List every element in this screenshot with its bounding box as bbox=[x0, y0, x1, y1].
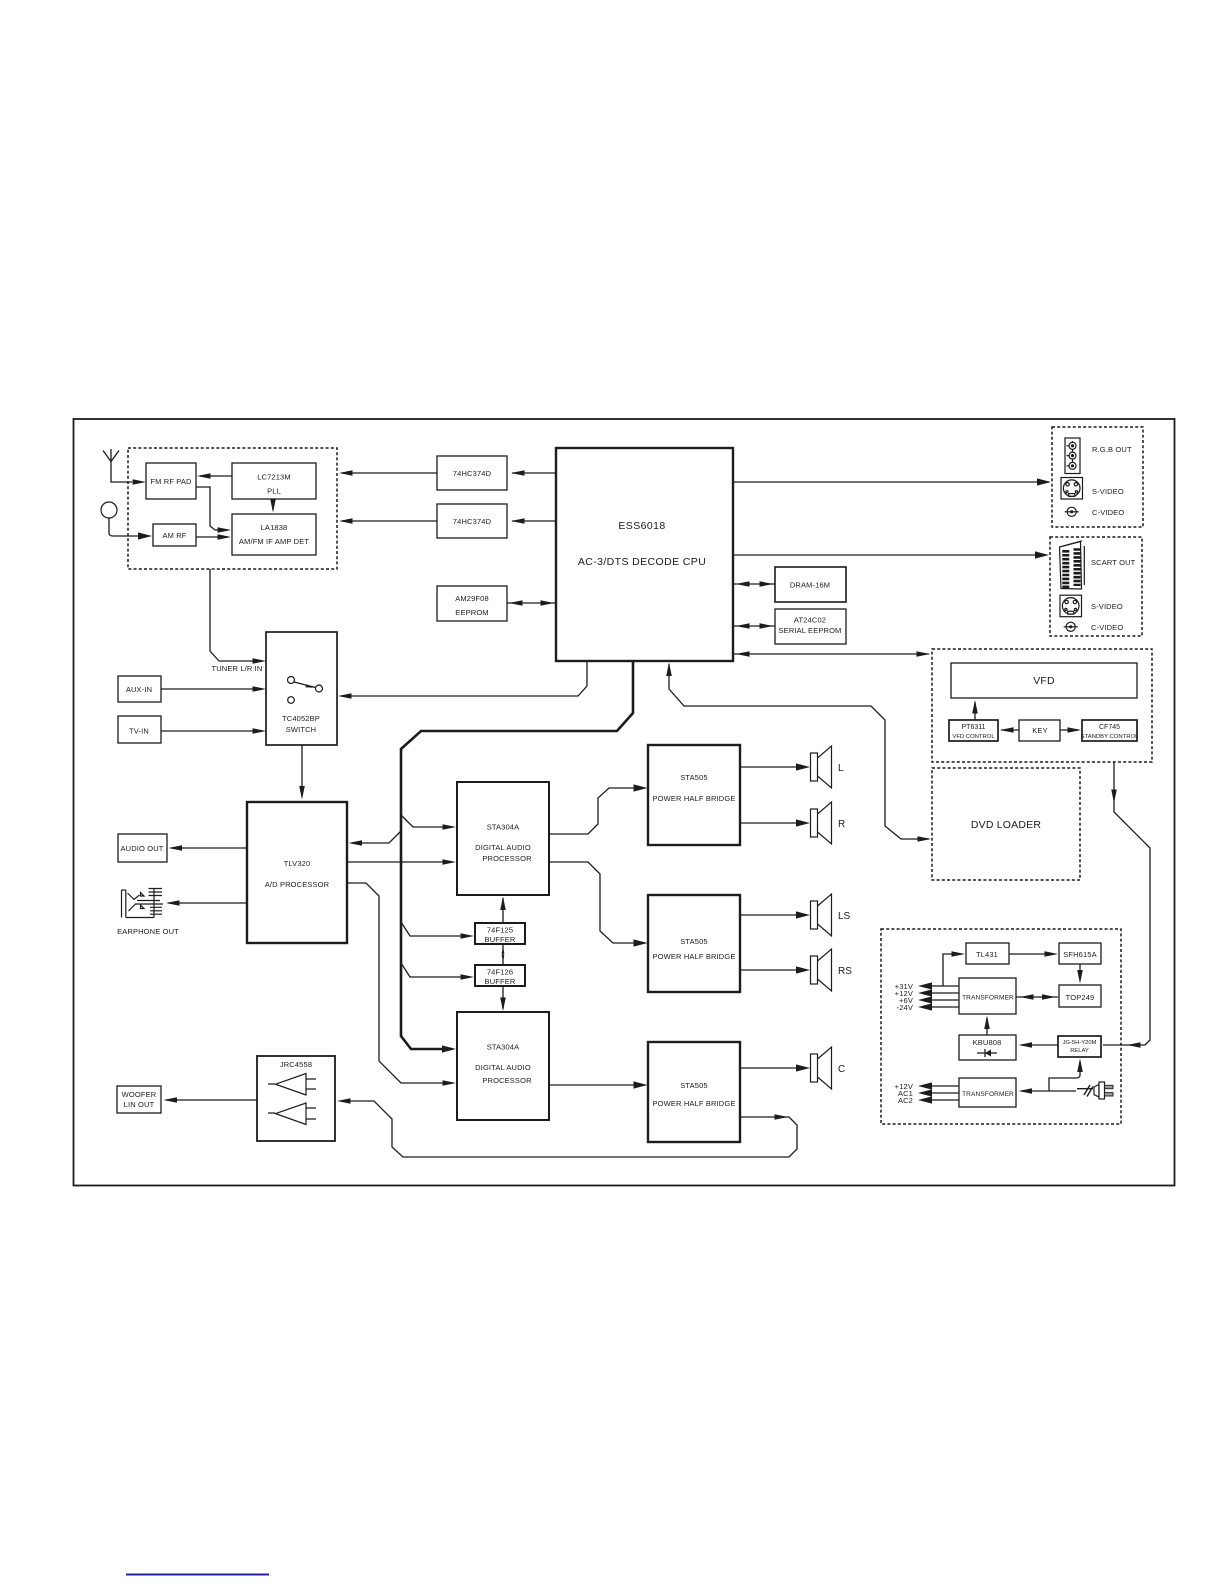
svg-text:TL431: TL431 bbox=[976, 950, 998, 959]
svg-text:VFD CONTROL: VFD CONTROL bbox=[952, 734, 995, 740]
svg-text:RS: RS bbox=[838, 966, 852, 977]
svg-text:KEY: KEY bbox=[1032, 726, 1047, 735]
svg-text:ESS6018: ESS6018 bbox=[618, 520, 665, 532]
svg-text:JRC4558: JRC4558 bbox=[280, 1060, 312, 1069]
svg-text:C-VIDEO: C-VIDEO bbox=[1092, 508, 1124, 517]
svg-text:LS: LS bbox=[838, 911, 851, 922]
svg-text:DIGITAL AUDIO: DIGITAL AUDIO bbox=[475, 1063, 531, 1072]
svg-text:TUNER L/R IN: TUNER L/R IN bbox=[212, 664, 263, 673]
svg-text:AC2: AC2 bbox=[898, 1096, 913, 1105]
svg-text:AUDIO OUT: AUDIO OUT bbox=[120, 844, 163, 853]
svg-text:R.G.B OUT: R.G.B OUT bbox=[1092, 445, 1132, 454]
svg-text:DRAM-16M: DRAM-16M bbox=[790, 581, 830, 590]
svg-text:BUFFER: BUFFER bbox=[485, 935, 516, 944]
svg-text:-24V: -24V bbox=[897, 1003, 913, 1012]
svg-text:SFH615A: SFH615A bbox=[1063, 950, 1097, 959]
svg-text:POWER HALF BRIDGE: POWER HALF BRIDGE bbox=[653, 794, 736, 803]
svg-text:KBU808: KBU808 bbox=[973, 1038, 1002, 1047]
svg-text:A/D PROCESSOR: A/D PROCESSOR bbox=[265, 880, 330, 889]
svg-text:SERIAL EEPROM: SERIAL EEPROM bbox=[779, 626, 842, 635]
svg-text:TOP249: TOP249 bbox=[1066, 993, 1095, 1002]
svg-text:FM RF PAD: FM RF PAD bbox=[150, 477, 192, 486]
svg-text:TRANSFORMER: TRANSFORMER bbox=[962, 1091, 1014, 1098]
svg-text:EARPHONE OUT: EARPHONE OUT bbox=[117, 927, 179, 936]
svg-text:AT24C02: AT24C02 bbox=[794, 616, 826, 625]
svg-text:LC7213M: LC7213M bbox=[257, 473, 291, 482]
svg-text:AM29F08: AM29F08 bbox=[455, 594, 489, 603]
svg-text:STA304A: STA304A bbox=[487, 1043, 520, 1052]
svg-text:WOOFER: WOOFER bbox=[122, 1090, 157, 1099]
svg-text:L: L bbox=[838, 763, 844, 774]
svg-text:TV-IN: TV-IN bbox=[129, 727, 149, 736]
svg-text:SCART OUT: SCART OUT bbox=[1091, 558, 1136, 567]
svg-text:PROCESSOR: PROCESSOR bbox=[482, 854, 532, 863]
svg-text:JG-5H-Y20M: JG-5H-Y20M bbox=[1063, 1040, 1097, 1046]
svg-text:PLL: PLL bbox=[267, 487, 281, 496]
svg-text:74F125: 74F125 bbox=[487, 926, 513, 935]
svg-text:SWITCH: SWITCH bbox=[286, 725, 316, 734]
svg-text:S-VIDEO: S-VIDEO bbox=[1092, 487, 1124, 496]
svg-text:CF745: CF745 bbox=[1099, 724, 1120, 731]
svg-text:C-VIDEO: C-VIDEO bbox=[1091, 623, 1123, 632]
svg-text:TLV320: TLV320 bbox=[284, 859, 311, 868]
svg-text:AUX-IN: AUX-IN bbox=[126, 685, 152, 694]
svg-text:AM RF: AM RF bbox=[162, 531, 186, 540]
svg-text:PROCESSOR: PROCESSOR bbox=[482, 1076, 532, 1085]
svg-text:BUFFER: BUFFER bbox=[485, 977, 516, 986]
svg-text:LA1838: LA1838 bbox=[261, 523, 288, 532]
svg-text:TRANSFORMER: TRANSFORMER bbox=[962, 995, 1014, 1002]
svg-text:LIN OUT: LIN OUT bbox=[124, 1100, 155, 1109]
svg-text:TC4052BP: TC4052BP bbox=[282, 714, 320, 723]
svg-text:DIGITAL AUDIO: DIGITAL AUDIO bbox=[475, 843, 531, 852]
svg-text:STANDBY CONTROL: STANDBY CONTROL bbox=[1081, 734, 1139, 740]
svg-text:C: C bbox=[838, 1064, 845, 1075]
svg-text:R: R bbox=[838, 819, 845, 830]
svg-text:74HC374D: 74HC374D bbox=[453, 517, 492, 526]
svg-text:RELAY: RELAY bbox=[1070, 1048, 1089, 1054]
svg-text:STA304A: STA304A bbox=[487, 823, 520, 832]
svg-text:74F126: 74F126 bbox=[487, 968, 513, 977]
svg-text:POWER HALF BRIDGE: POWER HALF BRIDGE bbox=[653, 1099, 736, 1108]
svg-text:VFD: VFD bbox=[1033, 675, 1055, 687]
svg-text:STA505: STA505 bbox=[680, 937, 707, 946]
svg-text:POWER HALF BRIDGE: POWER HALF BRIDGE bbox=[653, 952, 736, 961]
svg-text:PT6311: PT6311 bbox=[962, 724, 986, 731]
svg-text:STA505: STA505 bbox=[680, 1081, 707, 1090]
svg-text:AC-3/DTS DECODE CPU: AC-3/DTS DECODE CPU bbox=[578, 556, 706, 568]
svg-text:74HC374D: 74HC374D bbox=[453, 469, 492, 478]
svg-text:AM/FM IF AMP DET: AM/FM IF AMP DET bbox=[239, 537, 309, 546]
svg-text:DVD LOADER: DVD LOADER bbox=[971, 819, 1041, 831]
svg-text:S-VIDEO: S-VIDEO bbox=[1091, 602, 1123, 611]
svg-text:EEPROM: EEPROM bbox=[455, 608, 488, 617]
svg-text:STA505: STA505 bbox=[680, 773, 707, 782]
